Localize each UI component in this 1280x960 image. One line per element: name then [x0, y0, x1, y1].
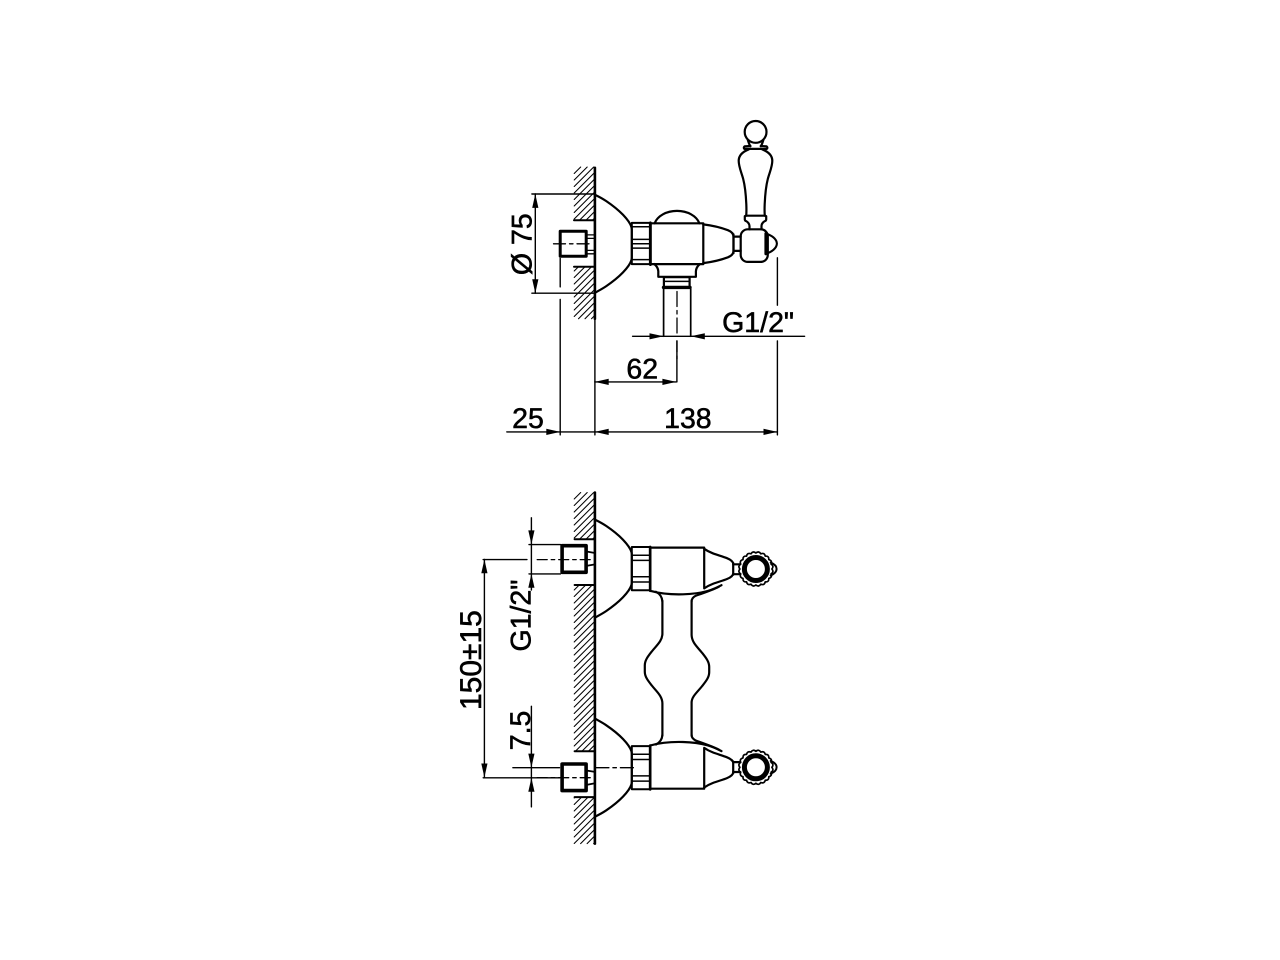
valve body (front view)	[650, 548, 704, 588]
handle collar (side view)	[744, 146, 768, 149]
handle cap tip (front view)	[771, 563, 777, 576]
escutcheon bell (front view)	[595, 520, 632, 618]
knurled ring nut (side view)	[632, 223, 650, 264]
lower valve centreline (front view)	[513, 767, 560, 769]
hub cap dome (side view)	[766, 234, 777, 254]
escutcheon bell (side view)	[595, 195, 632, 293]
wall recess cut lines (side view)	[574, 220, 595, 267]
outlet pipe G1/2 (side view)	[664, 289, 691, 337]
lever base flange (side view)	[745, 216, 766, 221]
leader / 138 extension line	[776, 258, 778, 435]
svg-text:138: 138	[664, 403, 712, 435]
column left junction (front view)	[656, 592, 662, 602]
inlet union square (front view)	[562, 546, 586, 573]
dim G1/2" (front view)	[530, 518, 532, 590]
lever neck (side view)	[745, 221, 765, 230]
body dome top (side view)	[655, 211, 700, 223]
svg-text:150±15: 150±15	[455, 610, 488, 710]
central column bulge (front view)	[645, 601, 663, 736]
dim 150+-15 (front view)	[483, 559, 485, 777]
wall face line (front view)	[594, 493, 597, 844]
column right junction (front view)	[692, 587, 719, 602]
mixer upper half group (front view)	[562, 520, 777, 618]
handle inner ring (front view)	[744, 558, 767, 581]
lower inlet centreline dash (front view)	[537, 777, 593, 779]
hub cap base (side view)	[764, 234, 767, 254]
wall hatching (side view)	[574, 167, 595, 319]
outlet pipe centreline	[676, 292, 678, 335]
dim 7.5 (front view)	[530, 706, 532, 807]
dim dia 75	[532, 194, 595, 293]
svg-text:25: 25	[512, 403, 544, 435]
union centreline (side view)	[554, 243, 593, 245]
union nipple lines (side view)	[587, 235, 595, 254]
wall recess cut lines (front view)	[575, 539, 595, 585]
upper inlet centreline dash (front view)	[537, 559, 593, 561]
mixer lower half (mirror)	[562, 719, 777, 817]
wall hatching (front view)	[574, 493, 595, 844]
knurled ring nut (front view)	[632, 547, 650, 590]
wall face line (side view)	[594, 168, 597, 319]
svg-text:G1/2": G1/2"	[722, 307, 794, 339]
bonnet cone silhouette (front view)	[704, 549, 733, 589]
svg-text:62: 62	[626, 353, 658, 385]
eccentric nipple (front view)	[588, 552, 595, 566]
outlet skirt (side view)	[654, 264, 699, 277]
dim G1/2" line (side view)	[633, 335, 805, 337]
body underside (front view)	[650, 585, 721, 594]
dim 25 / 138 baseline	[507, 431, 778, 433]
spindle neck (front view)	[733, 564, 740, 574]
handle outer knurled rim (front view)	[739, 552, 773, 586]
svg-text:Ø 75: Ø 75	[506, 213, 538, 275]
handle hub (side view)	[741, 229, 768, 262]
outlet nut (side view)	[664, 277, 690, 287]
handle ball (side view)	[745, 121, 767, 143]
extension lines 25/138	[559, 258, 561, 435]
svg-text:G1/2": G1/2"	[506, 580, 538, 652]
handle lever vase (side view)	[739, 149, 773, 215]
bonnet cone end face (side view)	[732, 234, 734, 253]
valve body (side view)	[651, 223, 704, 264]
bonnet cone (side view)	[703, 224, 733, 263]
svg-text:7.5: 7.5	[505, 711, 537, 751]
spindle neck (side view)	[734, 237, 741, 251]
wall union square (side view)	[560, 231, 586, 256]
dim 62	[595, 381, 677, 383]
